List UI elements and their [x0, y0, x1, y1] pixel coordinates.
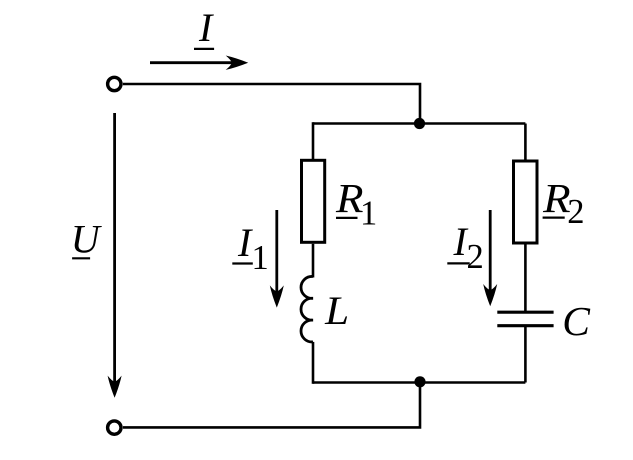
svg-text:1: 1	[360, 194, 377, 232]
resistor R2	[514, 161, 538, 243]
label R1	[335, 175, 377, 232]
arrow I2 (branch current, pointing down)	[483, 210, 497, 306]
svg-text:U: U	[71, 216, 103, 261]
arrow U (voltage, pointing down)	[108, 113, 122, 398]
svg-text:2: 2	[567, 193, 584, 231]
node junction bottom	[414, 376, 425, 387]
svg-text:I: I	[198, 5, 214, 50]
label U	[71, 216, 103, 261]
wire right branch upper	[524, 124, 527, 162]
svg-text:L: L	[324, 288, 349, 333]
label R2	[542, 175, 584, 231]
wire R2 to capacitor	[524, 245, 527, 313]
capacitor C	[497, 312, 553, 326]
wire top rail	[313, 122, 525, 125]
wire R1 to inductor	[312, 244, 315, 278]
wire capacitor to bottom rail	[524, 326, 527, 383]
svg-text:1: 1	[252, 239, 269, 277]
wire bottom (node down and left to terminal)	[123, 382, 420, 428]
label I2	[447, 219, 483, 276]
wire inductor to bottom rail	[312, 342, 315, 384]
wire top (terminal to corner, down to top node)	[123, 84, 420, 124]
label I	[194, 5, 214, 50]
label I1	[232, 220, 268, 277]
terminal bottom-left	[108, 421, 121, 434]
svg-text:2: 2	[467, 238, 484, 276]
arrow I (current into circuit, pointing right)	[150, 56, 248, 70]
inductor L	[301, 276, 313, 342]
resistor R1	[302, 160, 325, 242]
wire bottom rail	[313, 381, 525, 384]
svg-text:C: C	[562, 298, 591, 344]
node junction top	[414, 118, 425, 129]
terminal top-left	[108, 77, 121, 90]
arrow I1 (branch current, pointing down)	[270, 210, 284, 308]
wire left branch upper	[312, 122, 315, 160]
